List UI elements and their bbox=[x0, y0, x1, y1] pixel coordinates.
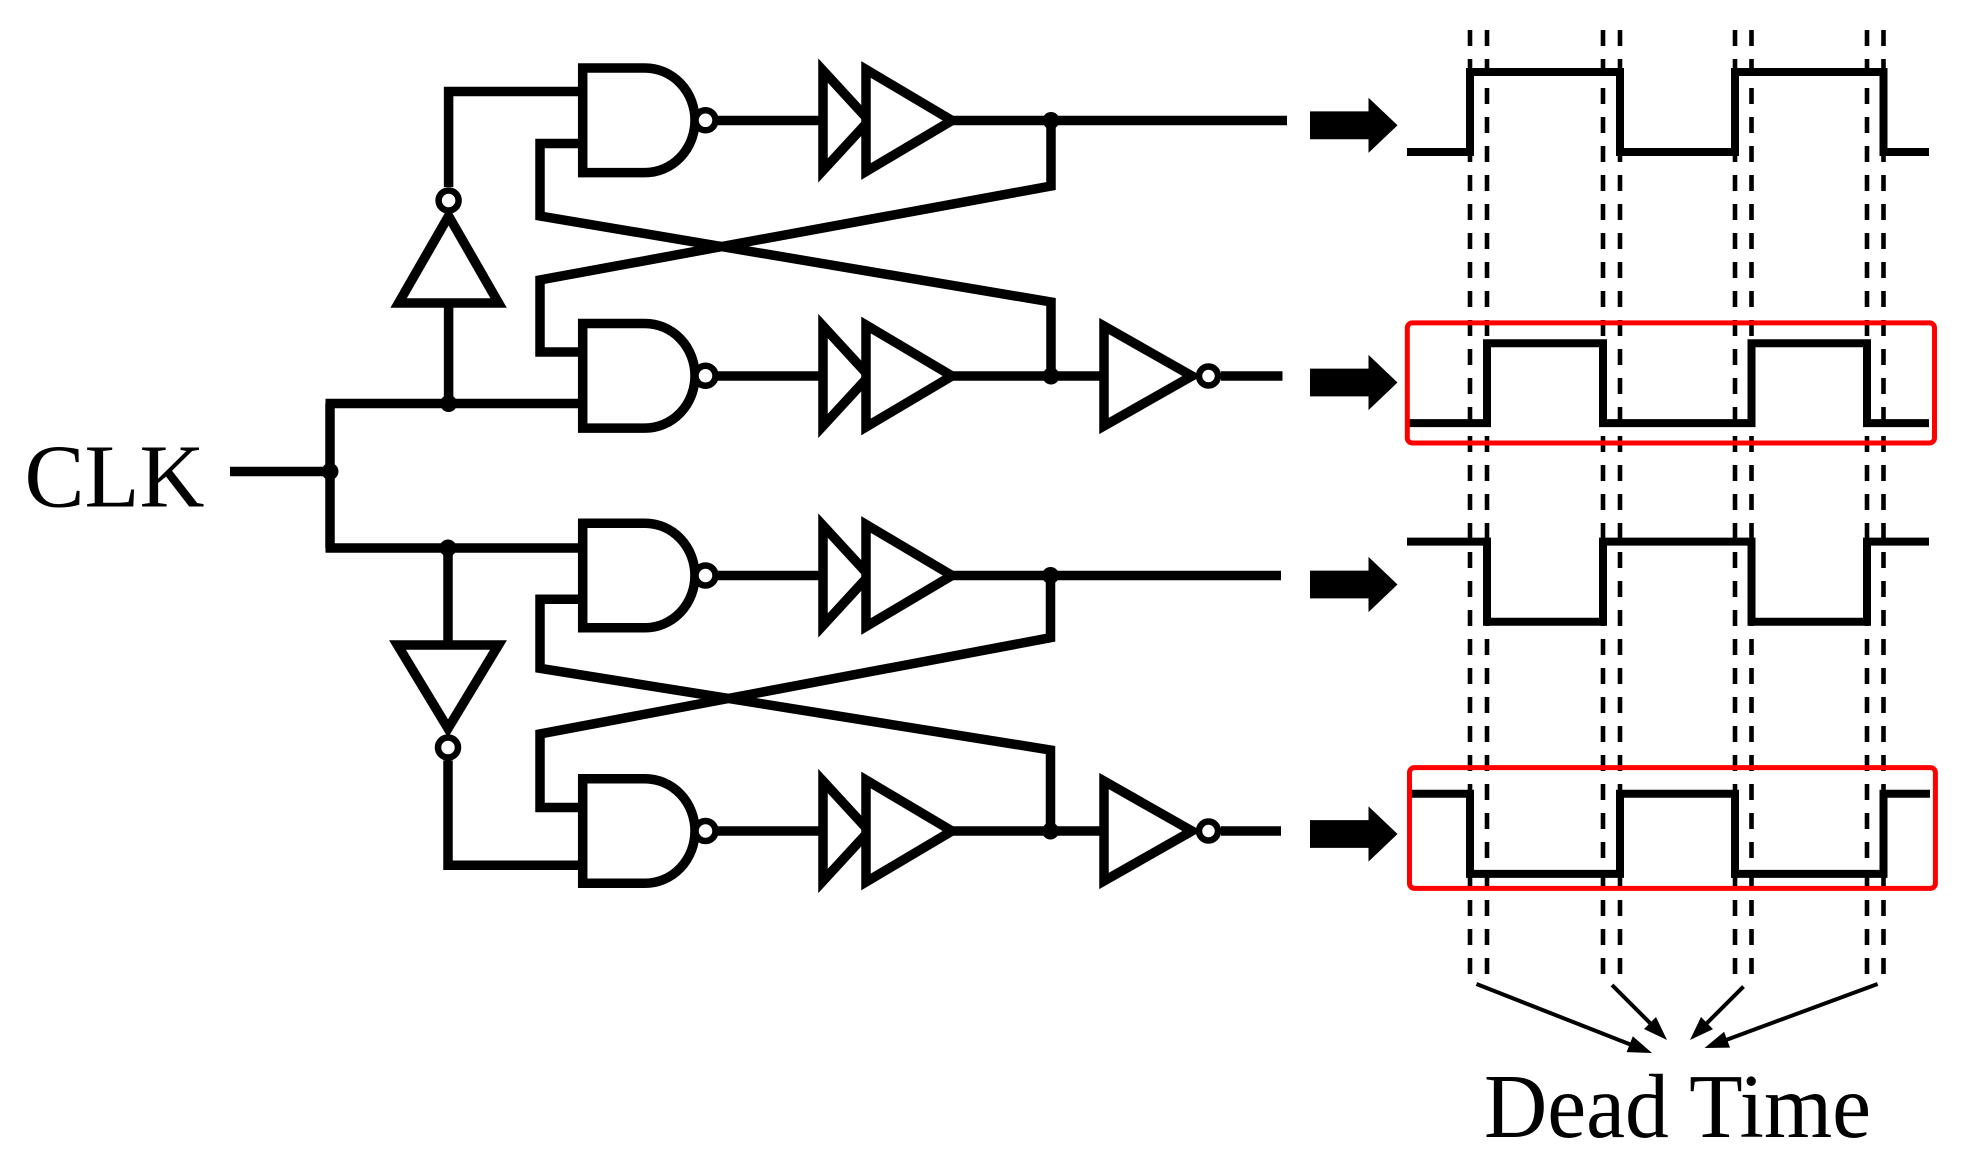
wire G2 output to buffer bbox=[716, 371, 827, 381]
wire inverter U2 input bbox=[443, 548, 453, 645]
arrow output 2 pointer bbox=[1310, 355, 1398, 410]
junction node Q3 bbox=[1042, 567, 1059, 584]
buffer B4a bbox=[823, 781, 869, 881]
NAND gate G2 output bubble bbox=[696, 366, 716, 386]
buffer B1a bbox=[823, 71, 869, 171]
wire CLK trunk vertical bbox=[325, 404, 335, 549]
waveform output 1 bbox=[1407, 72, 1929, 152]
waveform output 2 bbox=[1409, 343, 1929, 423]
wire inverter U1 output to G1 top input bbox=[449, 92, 583, 188]
buffer B3b bbox=[866, 525, 952, 627]
wire node Q3 to output 3 bbox=[952, 571, 1281, 581]
arrow dead-time pointer 4 bbox=[1718, 984, 1878, 1043]
inverter U3 bbox=[1104, 326, 1192, 426]
junction bottom branch / inverter U2 tap bbox=[440, 540, 457, 557]
wire G3 output to buffer bbox=[716, 571, 827, 581]
inverter U2 bubble bbox=[438, 738, 458, 758]
buffer B1b bbox=[866, 70, 952, 172]
wire node Q2 to inverter U3 bbox=[952, 371, 1106, 381]
wire top branch to G2 input bbox=[326, 399, 584, 409]
buffer B3a bbox=[823, 526, 869, 626]
wire G4 output to buffer bbox=[716, 826, 827, 836]
arrow output 4 pointer bbox=[1310, 806, 1398, 861]
wire node Q4 to inverter U4 bbox=[952, 826, 1106, 836]
junction node Q1 bbox=[1043, 112, 1060, 129]
junction node Q4 bbox=[1042, 823, 1059, 840]
buffer B2b bbox=[866, 325, 952, 427]
waveform output 4 bbox=[1411, 794, 1930, 874]
arrow dead-time pointer 1 bbox=[1477, 984, 1640, 1048]
wire bottom branch to G3 input bbox=[326, 543, 584, 553]
inverter U2 (down) bbox=[398, 645, 499, 729]
wire G1 bottom input hook + cross feedback to node Q2 bbox=[540, 144, 1051, 377]
junction top branch / inverter U1 tap bbox=[440, 395, 457, 412]
wire G3 bottom input hook + cross feedback to node Q4 bbox=[540, 599, 1051, 831]
arrow output 3 pointer bbox=[1310, 557, 1398, 612]
arrow output 1 pointer bbox=[1310, 98, 1398, 153]
svg-text:CLK: CLK bbox=[25, 428, 205, 527]
inverter U4 bubble bbox=[1199, 822, 1218, 841]
wire node Q1 cross feedback to G2 top input bbox=[540, 121, 1051, 353]
wire inverter U3 output 2 bbox=[1221, 371, 1283, 381]
inverter U1 bubble bbox=[439, 191, 459, 211]
inverter U3 bubble bbox=[1199, 367, 1218, 386]
junction node Q2 bbox=[1043, 368, 1060, 385]
wire inverter U4 output 4 bbox=[1221, 826, 1281, 836]
junction CLK split bbox=[322, 463, 339, 480]
inverter U1 (up) bbox=[399, 216, 499, 303]
wire node Q3 cross feedback to G4 top input bbox=[540, 576, 1051, 808]
red highlight box waveform 4 bbox=[1410, 768, 1936, 889]
wire inverter U1 input bbox=[444, 303, 454, 404]
NAND gate G4 bbox=[583, 779, 695, 884]
NAND gate G1 bbox=[583, 68, 695, 173]
buffer B4b bbox=[866, 780, 952, 882]
buffer B2a bbox=[823, 326, 869, 426]
dashed timing edge lines bbox=[1470, 30, 1884, 982]
wire inverter U2 output to G4 bottom input bbox=[448, 761, 583, 866]
arrow dead-time pointer 3 bbox=[1700, 987, 1744, 1031]
NAND gate G3 output bubble bbox=[696, 566, 716, 586]
NAND gate G4 output bubble bbox=[696, 821, 716, 841]
NAND gate G3 bbox=[583, 523, 695, 628]
wire G1 output to buffer bbox=[716, 116, 827, 126]
NAND gate G2 bbox=[583, 324, 695, 429]
wire CLK lead bbox=[230, 467, 330, 477]
svg-text:Dead Time: Dead Time bbox=[1484, 1055, 1871, 1157]
NAND gate G1 output bubble bbox=[696, 110, 716, 130]
waveform output 3 bbox=[1407, 542, 1929, 622]
wire node Q1 to output 1 bbox=[952, 116, 1287, 126]
inverter U4 bbox=[1104, 781, 1192, 881]
arrow dead-time pointer 2 bbox=[1612, 985, 1657, 1030]
red highlight box waveform 2 bbox=[1407, 323, 1934, 443]
